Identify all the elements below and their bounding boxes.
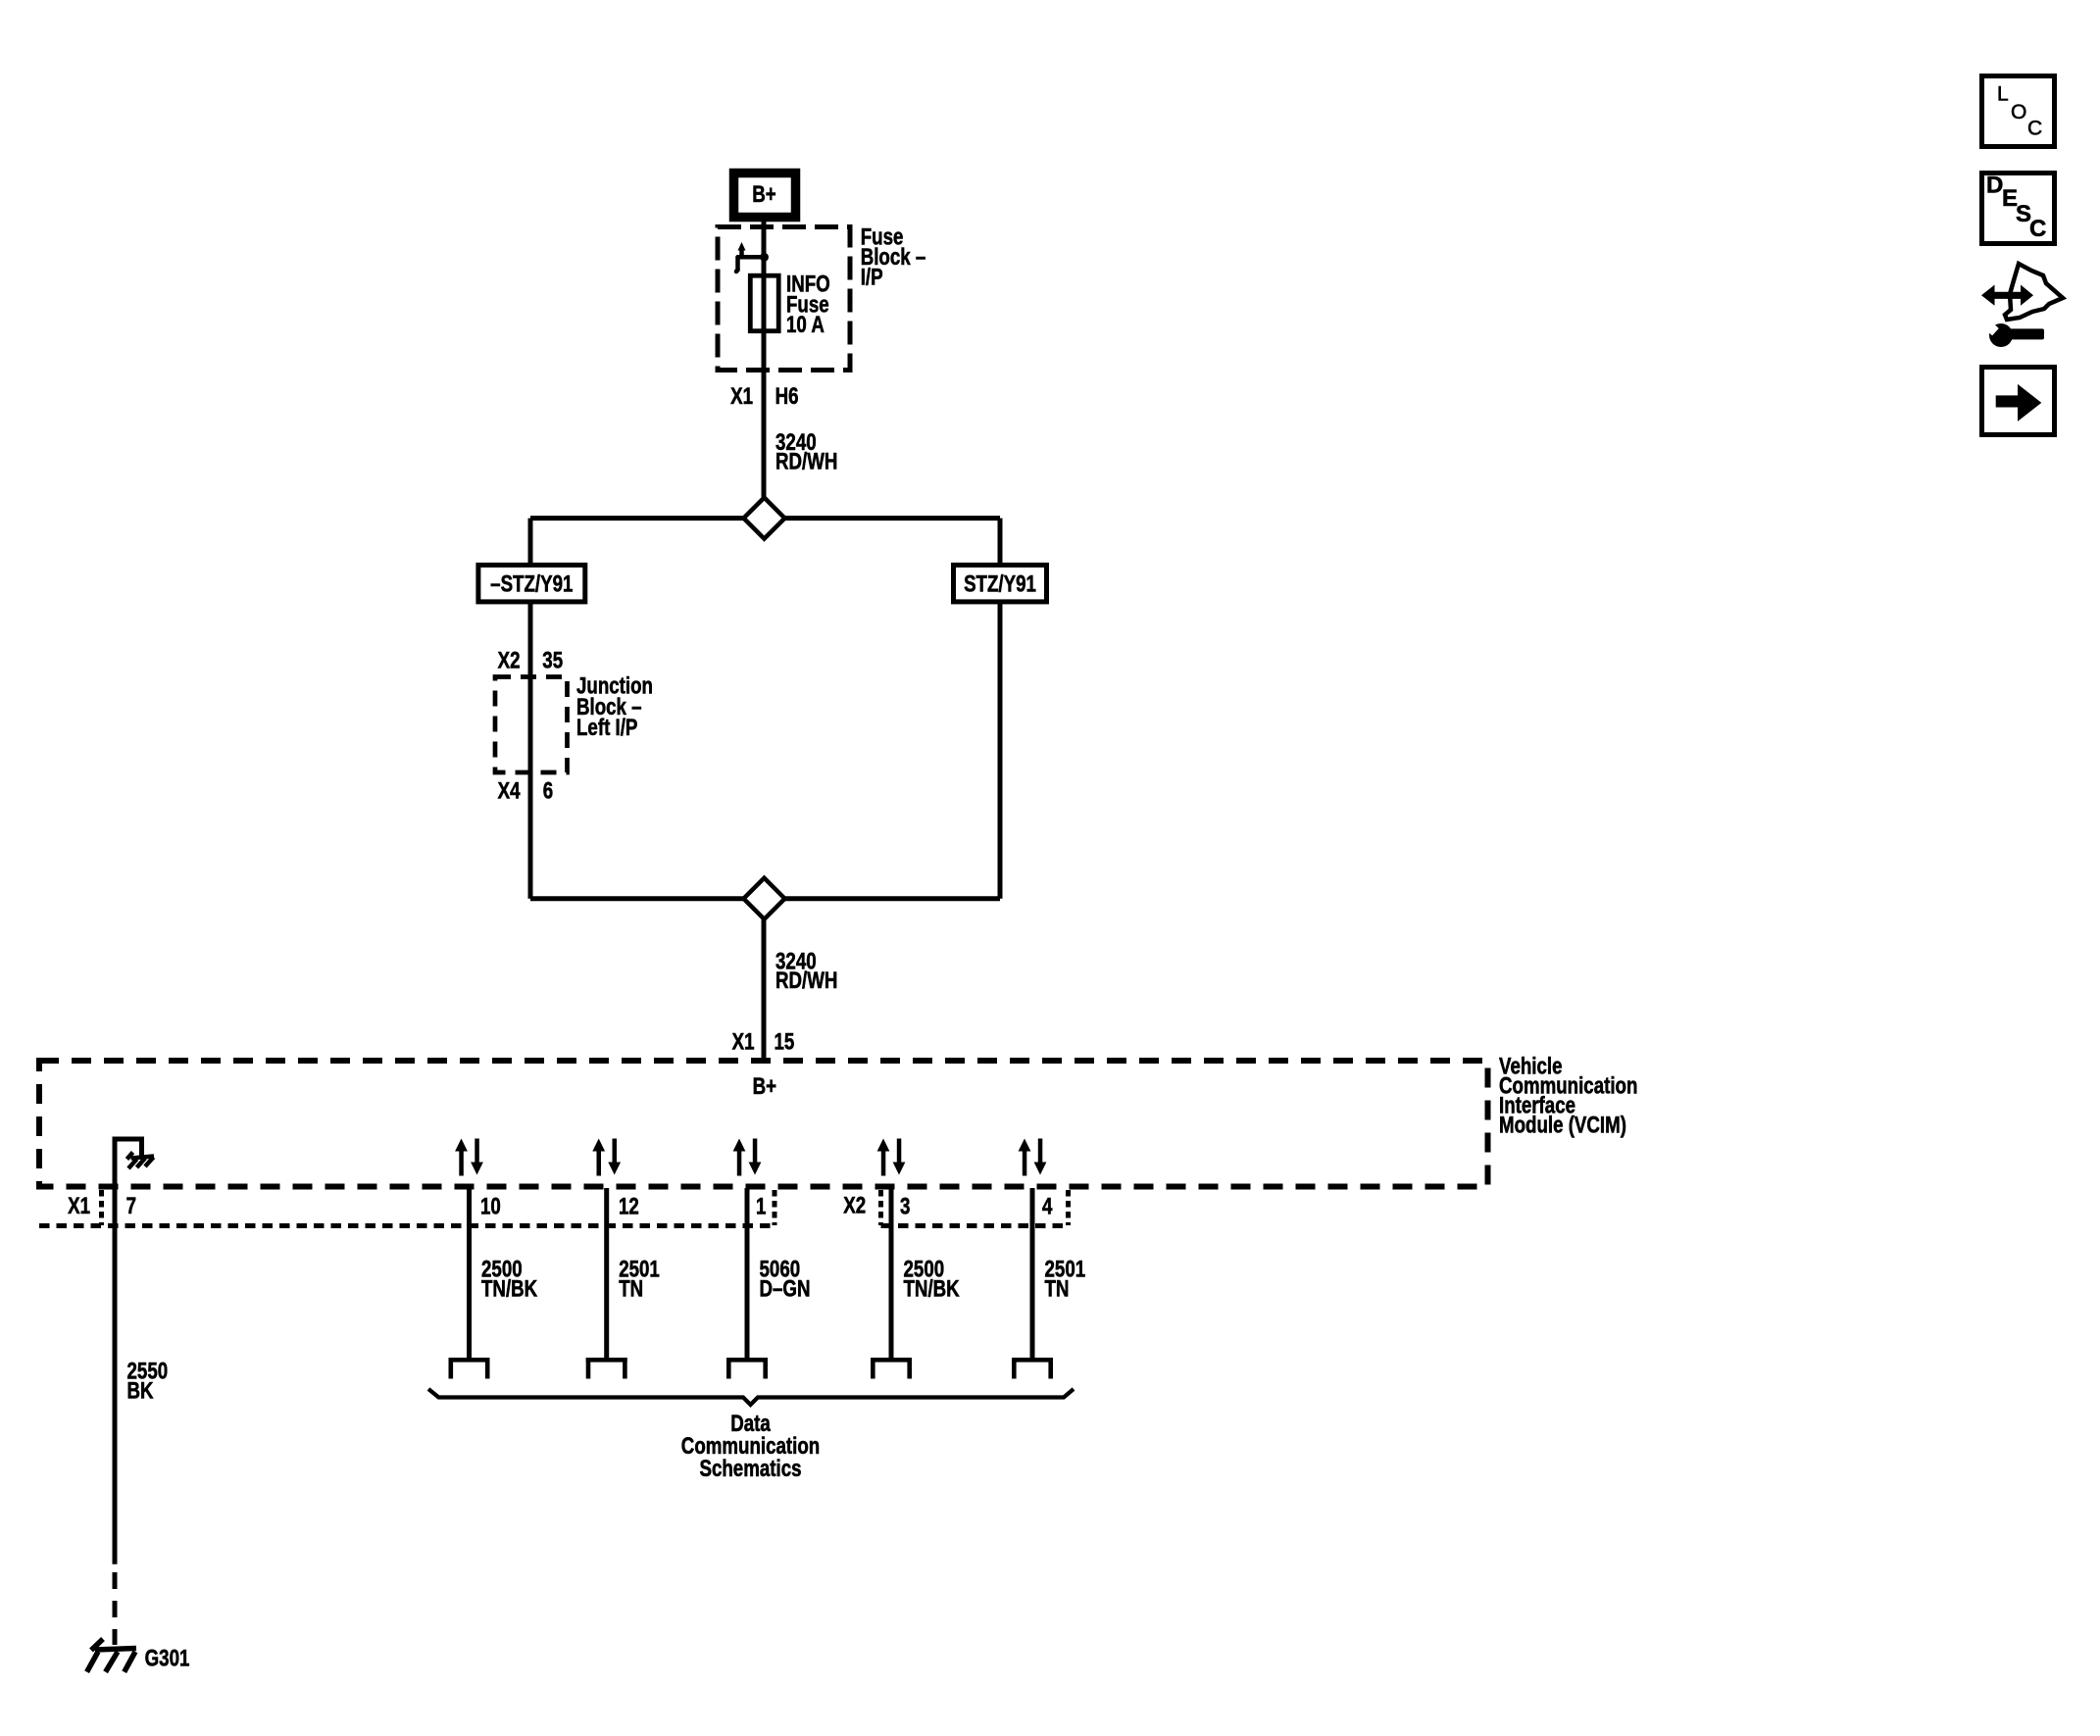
xref double arrow [1981,285,2033,306]
svg-text:O: O [2011,101,2026,124]
wire label 3240 RD/WH (upper) [775,429,837,474]
fuse block bus hook symbol [736,249,765,272]
forward arrow icon box [1982,368,2055,435]
svg-text:6: 6 [543,777,553,804]
svg-text:C: C [2029,216,2046,242]
terminal pin 3 [871,1358,912,1379]
pin label 6 [543,777,553,804]
VCIM dashed box [39,1061,1488,1187]
connector tick right of pin 1 [773,1190,777,1225]
svg-text:10: 10 [480,1193,501,1219]
terminal pin 1 [726,1358,768,1379]
wire pin 3 (2500 TN/BK) [889,1188,894,1358]
top bus wire [530,516,1000,521]
ground wire dashed portion [113,1572,118,1645]
svg-text:B+: B+ [753,1073,776,1100]
ground symbol G301 [87,1639,136,1672]
terminal pin 4 [1012,1358,1053,1379]
data arrows pair pin 1 [733,1139,762,1176]
svg-text:L: L [1997,83,2009,106]
wire pin 4 (2501 TN) [1030,1188,1035,1358]
data arrows pair pin 3 [877,1139,906,1176]
connector label X2 [498,647,521,673]
pin label 35 [542,647,563,673]
wire left drop [528,519,533,565]
fuse block label Fuse Block - I/P [861,223,926,290]
svg-text:X1: X1 [730,383,753,410]
connector tick X2 [878,1190,883,1225]
ground hook wire inside VCIM [115,1139,142,1188]
junction block label [576,672,653,740]
terminal pin 12 [586,1358,627,1379]
svg-text:G301: G301 [145,1645,190,1671]
svg-text:4: 4 [1042,1193,1052,1219]
B+ power box [734,174,796,218]
pin label H6 [775,383,799,410]
ground name G301 [145,1645,190,1671]
node box STZ/Y91 [954,565,1047,602]
svg-text:1: 1 [756,1193,766,1219]
svg-text:X4: X4 [498,777,521,804]
pin row labels [68,1193,90,1219]
connector label X1 at VCIM [732,1028,755,1055]
connector tick right of pin 4 [1066,1190,1071,1225]
data arrows pair pin 12 [592,1139,621,1176]
bottom bus wire [530,896,1000,901]
connector label X4 [498,777,521,804]
wire from B+ to top diamond [762,220,767,499]
wire pin 1 (5060 D-GN) [745,1188,750,1358]
top splice diamond [744,498,785,539]
wire pin 12 (2501 TN) [604,1188,609,1358]
svg-text:STZ/Y91: STZ/Y91 [964,570,1036,597]
svg-text:H6: H6 [775,383,799,410]
fuse block dashed box [718,227,850,371]
wire right drop [998,519,1003,565]
B+ power box label [752,181,775,208]
svg-text:7: 7 [126,1193,136,1219]
hook arrowhead [738,242,746,251]
svg-text:B+: B+ [752,181,775,208]
fuse label INFO Fuse 10 A [786,271,830,337]
svg-text:D: D [1986,173,2003,199]
B+ pin name inside VCIM [753,1073,776,1100]
svg-text:INFOFuse10 A: INFOFuse10 A [786,271,830,337]
ground wire below VCIM [113,1188,118,1564]
connector label X1 [730,383,753,410]
data arrows pair pin 10 [455,1139,483,1176]
svg-text:X1: X1 [68,1193,90,1219]
brace [428,1389,1074,1405]
LOC icon box [1982,76,2055,147]
junction dot on wire [760,253,769,262]
wire pin 10 (2500 TN/BK) [467,1188,472,1358]
wire label 2550 BK [127,1358,169,1404]
connector tick X1 [99,1190,104,1225]
VCIM name label [1499,1053,1637,1138]
svg-text:3: 3 [900,1193,910,1219]
svg-text:15: 15 [775,1028,795,1055]
fuse INFO 10A [750,275,778,331]
node box -STZ/Y91 [478,565,585,602]
data arrows pair pin 4 [1019,1139,1047,1176]
chassis ground symbol inside VCIM [127,1153,155,1169]
wire labels row [481,1256,538,1302]
lower connector dashed line segment B [881,1223,1069,1228]
wire from bottom diamond to VCIM [762,919,767,1064]
xref outline arrow [2005,264,2063,320]
svg-text:X1: X1 [732,1028,755,1055]
pin label 15 [775,1028,795,1055]
svg-text:C: C [2027,118,2042,140]
xref wrench [1977,316,2044,347]
svg-text:35: 35 [542,647,563,673]
cross reference label [681,1411,820,1482]
terminal pin 10 [449,1358,490,1379]
svg-text:X2: X2 [498,647,521,673]
svg-text:X2: X2 [843,1192,866,1218]
DESC icon box [1982,174,2055,244]
junction block dashed box [495,677,568,773]
svg-text:–STZ/Y91: –STZ/Y91 [490,570,573,597]
lower connector dashed line segment A [39,1223,775,1228]
wire left continue down [528,602,533,899]
wire right continue down [998,602,1003,899]
wire label 3240 RD/WH (lower) [775,948,837,993]
svg-text:12: 12 [619,1193,639,1219]
bottom splice diamond [744,878,785,919]
